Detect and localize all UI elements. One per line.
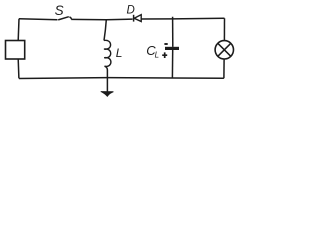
svg-text:S: S bbox=[55, 3, 64, 18]
svg-text:D: D bbox=[127, 5, 135, 17]
svg-text:L: L bbox=[155, 51, 159, 60]
svg-text:L: L bbox=[116, 46, 123, 60]
